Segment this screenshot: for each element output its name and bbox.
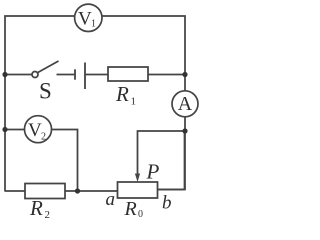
svg-text:0: 0 xyxy=(138,209,143,219)
svg-text:R: R xyxy=(115,82,129,106)
svg-text:2: 2 xyxy=(41,132,46,143)
svg-text:1: 1 xyxy=(131,96,137,108)
svg-text:2: 2 xyxy=(45,209,51,219)
svg-text:1: 1 xyxy=(91,19,96,30)
svg-text:R: R xyxy=(29,196,43,219)
svg-text:S: S xyxy=(39,78,52,103)
svg-text:V: V xyxy=(28,120,42,141)
svg-text:P: P xyxy=(146,159,160,183)
svg-text:V: V xyxy=(78,9,92,30)
svg-text:a: a xyxy=(106,189,116,210)
svg-text:R: R xyxy=(124,198,137,219)
svg-text:b: b xyxy=(162,192,172,213)
svg-text:A: A xyxy=(178,93,193,115)
